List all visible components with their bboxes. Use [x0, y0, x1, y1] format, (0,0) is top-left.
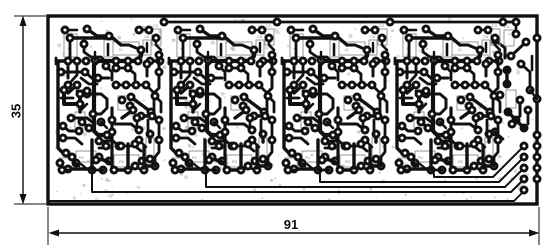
wire right mid vert — [512, 100, 520, 124]
dimension extension right — [538, 207, 540, 245]
wire bus line D — [434, 146, 524, 177]
wire right col connect — [530, 90, 537, 99]
pad right lower cluster — [504, 108, 513, 117]
pad right mid vert2 — [524, 106, 533, 115]
arrowhead left — [49, 230, 60, 237]
pad edge column B — [533, 34, 542, 43]
wire right mid vert2 — [527, 110, 530, 124]
capacitor outline C4 — [504, 30, 514, 46]
scan noise speckle — [55, 17, 535, 202]
arrowhead right — [529, 230, 540, 237]
dimension extension line top — [14, 15, 46, 17]
pad right top feed — [491, 36, 500, 45]
wire right lower diag — [508, 112, 524, 128]
pad right low — [491, 128, 500, 137]
pad right mid — [517, 60, 526, 69]
pad top bus 1 — [160, 18, 169, 27]
wire right extra — [505, 70, 508, 84]
capacitor outline C7 — [506, 90, 516, 108]
channel block 3 — [282, 23, 391, 175]
wire bus line A — [92, 174, 524, 192]
wire right diag — [511, 42, 526, 56]
pad top bus 4 — [499, 18, 508, 27]
wire right low diag — [495, 132, 503, 139]
PCB board outline — [48, 16, 537, 204]
pad output column A — [520, 142, 529, 151]
wire right mid link — [521, 64, 530, 90]
svg-text:91: 91 — [284, 217, 298, 232]
channel block 2 — [169, 23, 278, 175]
channel block 1 — [56, 23, 165, 175]
wire right border hug — [531, 56, 534, 70]
pad top bus 2 — [273, 18, 282, 27]
arrowhead down — [20, 194, 27, 205]
pad right v — [512, 30, 521, 39]
wire right vertical — [515, 26, 518, 34]
dimension extension left — [47, 207, 49, 245]
pad right extra — [503, 66, 512, 75]
pad top bus 5 — [512, 18, 521, 27]
pad ground end — [520, 186, 529, 195]
wire bus line C — [320, 157, 524, 182]
pad top bus 3 — [386, 18, 395, 27]
wire top supply bus — [164, 21, 516, 24]
wire bottom ground trace — [50, 191, 524, 201]
arrowhead up — [20, 16, 27, 27]
dimension line 35 — [22, 18, 24, 202]
svg-text:C4: C4 — [504, 24, 510, 29]
channel block 4 — [395, 23, 504, 175]
wire right top feed — [495, 40, 505, 58]
pad right diag — [507, 52, 516, 61]
pad right mid vert — [516, 96, 525, 105]
dimension line 91 — [51, 232, 536, 234]
svg-text:35: 35 — [8, 104, 23, 118]
wire bus line B — [206, 168, 524, 187]
dimension extension line bottom — [14, 203, 46, 205]
